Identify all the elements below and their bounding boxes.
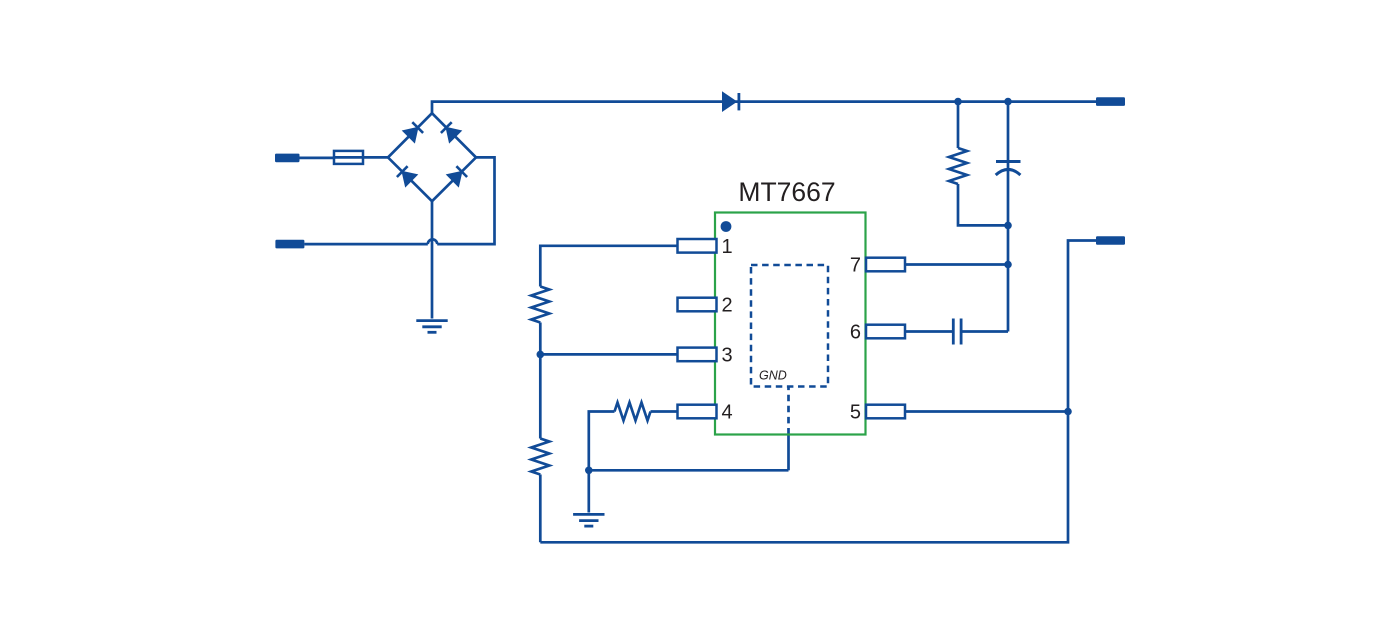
svg-text:6: 6 xyxy=(850,322,861,344)
svg-text:1: 1 xyxy=(722,236,733,258)
svg-text:GND: GND xyxy=(759,369,787,383)
svg-text:7: 7 xyxy=(850,255,861,277)
svg-text:5: 5 xyxy=(850,402,861,424)
svg-text:MT7667: MT7667 xyxy=(738,177,835,207)
svg-text:3: 3 xyxy=(722,344,733,366)
svg-text:2: 2 xyxy=(722,295,733,317)
svg-text:4: 4 xyxy=(722,402,733,424)
